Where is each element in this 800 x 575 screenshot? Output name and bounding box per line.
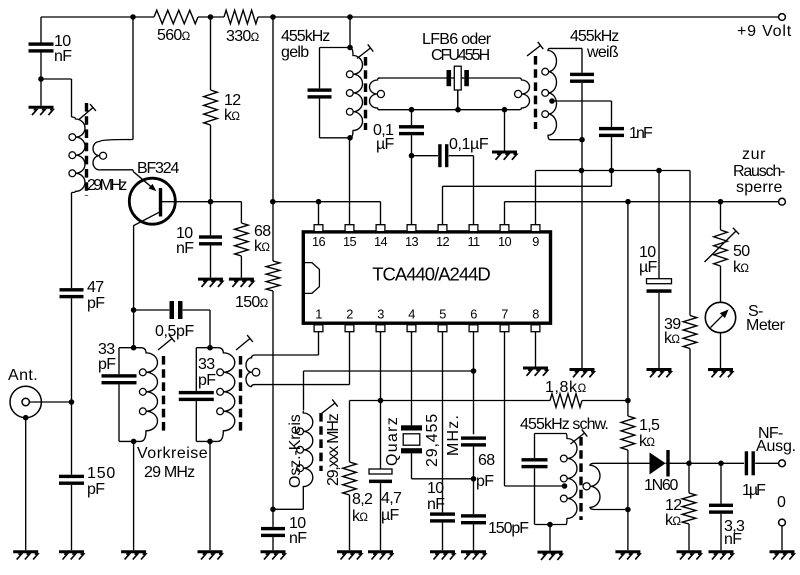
svg-text:pF: pF xyxy=(87,481,105,498)
svg-text:455kHz: 455kHz xyxy=(281,28,330,45)
svg-text:33: 33 xyxy=(198,356,215,373)
svg-text:150pF: 150pF xyxy=(488,520,529,537)
svg-text:68: 68 xyxy=(478,452,495,469)
svg-text:150: 150 xyxy=(87,465,116,482)
svg-text:1N60: 1N60 xyxy=(644,477,678,494)
svg-text:50: 50 xyxy=(733,243,750,260)
svg-text:sperre: sperre xyxy=(736,179,783,196)
svg-text:1nF: 1nF xyxy=(629,125,653,142)
svg-text:455kHz schw.: 455kHz schw. xyxy=(520,416,608,433)
svg-text:gelb: gelb xyxy=(281,44,309,61)
svg-text:Vorkreise: Vorkreise xyxy=(137,445,208,462)
svg-text:4,7: 4,7 xyxy=(381,490,402,507)
svg-text:0,1µF: 0,1µF xyxy=(449,136,489,153)
svg-text:11: 11 xyxy=(467,234,480,249)
svg-text:+9 Volt: +9 Volt xyxy=(737,23,792,40)
svg-text:15: 15 xyxy=(343,234,357,249)
svg-text:TCA440/A244D: TCA440/A244D xyxy=(372,264,490,285)
svg-text:Rausch-: Rausch- xyxy=(733,163,785,180)
svg-text:Osz.-Kreis: Osz.-Kreis xyxy=(287,414,304,488)
svg-text:nF: nF xyxy=(724,531,742,548)
svg-text:2: 2 xyxy=(346,307,353,322)
svg-text:29 MHz: 29 MHz xyxy=(144,464,195,481)
svg-text:47: 47 xyxy=(87,279,104,296)
svg-text:9: 9 xyxy=(532,234,539,249)
svg-text:Meter: Meter xyxy=(746,317,786,334)
svg-text:µF: µF xyxy=(639,259,658,276)
svg-text:29,xxx MHz: 29,xxx MHz xyxy=(325,413,342,486)
svg-text:5: 5 xyxy=(439,307,446,322)
svg-text:3: 3 xyxy=(377,307,384,322)
svg-text:nF: nF xyxy=(176,240,194,257)
svg-text:0,5pF: 0,5pF xyxy=(155,323,195,340)
svg-text:1µF: 1µF xyxy=(742,482,766,499)
svg-text:7: 7 xyxy=(501,307,508,322)
svg-text:10: 10 xyxy=(427,480,444,497)
svg-text:MHz.: MHz. xyxy=(445,414,462,456)
svg-text:pF: pF xyxy=(98,356,116,373)
svg-text:µF: µF xyxy=(381,507,400,524)
svg-text:29MHz: 29MHz xyxy=(87,177,127,194)
svg-text:13: 13 xyxy=(405,234,419,249)
svg-text:8,2: 8,2 xyxy=(352,491,373,508)
svg-text:BF324: BF324 xyxy=(137,160,179,177)
svg-text:Quarz: Quarz xyxy=(384,416,401,466)
svg-text:8: 8 xyxy=(532,307,539,322)
svg-text:12: 12 xyxy=(436,234,450,249)
svg-text:0: 0 xyxy=(777,494,786,511)
svg-text:1: 1 xyxy=(315,307,322,322)
svg-text:µF: µF xyxy=(376,136,395,153)
svg-text:nF: nF xyxy=(427,496,445,513)
svg-text:zur: zur xyxy=(742,146,766,163)
svg-text:Ausg.: Ausg. xyxy=(756,438,796,455)
svg-text:nF: nF xyxy=(54,48,72,65)
svg-text:pF: pF xyxy=(476,473,494,490)
svg-text:1,5: 1,5 xyxy=(639,417,660,434)
svg-text:nF: nF xyxy=(289,530,307,547)
svg-text:4: 4 xyxy=(408,307,415,322)
svg-text:29,455: 29,455 xyxy=(424,413,441,467)
svg-text:14: 14 xyxy=(374,234,388,249)
svg-text:pF: pF xyxy=(198,372,216,389)
svg-text:10: 10 xyxy=(498,234,512,249)
svg-text:CFU455H: CFU455H xyxy=(431,47,490,64)
svg-text:pF: pF xyxy=(87,295,105,312)
svg-text:16: 16 xyxy=(312,234,326,249)
svg-text:Ant.: Ant. xyxy=(8,367,38,384)
svg-text:455kHz: 455kHz xyxy=(570,28,619,45)
svg-text:weiß: weiß xyxy=(586,44,619,61)
svg-text:LFB6 oder: LFB6 oder xyxy=(422,31,492,48)
svg-text:6: 6 xyxy=(470,307,477,322)
